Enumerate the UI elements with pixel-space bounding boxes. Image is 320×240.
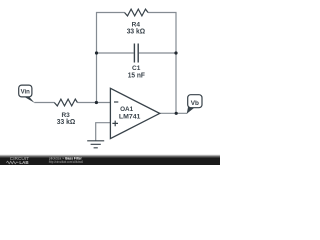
svg-text:LAB: LAB	[19, 160, 28, 165]
svg-text:C1: C1	[132, 65, 141, 72]
svg-text:33 kΩ: 33 kΩ	[127, 28, 146, 35]
svg-text:R3: R3	[61, 112, 70, 119]
svg-text:15 nF: 15 nF	[128, 72, 146, 79]
svg-text:Vb: Vb	[191, 100, 199, 107]
svg-text:LM741: LM741	[119, 114, 141, 121]
svg-text:Vin: Vin	[21, 90, 31, 96]
svg-text:33 kΩ: 33 kΩ	[57, 119, 76, 126]
svg-text:OA1: OA1	[120, 106, 134, 113]
svg-text:http://circuitlab.com/c8fubw8: http://circuitlab.com/c8fubw8	[49, 159, 84, 164]
